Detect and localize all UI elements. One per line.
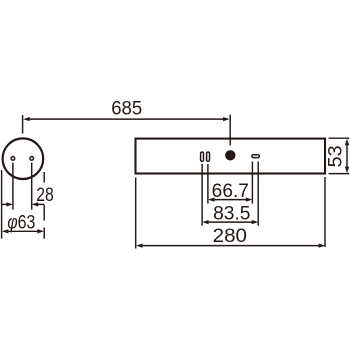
- svg-text:685: 685: [111, 98, 142, 119]
- svg-text:28: 28: [36, 185, 54, 206]
- svg-text:66.7: 66.7: [212, 181, 249, 202]
- svg-text:83.5: 83.5: [213, 204, 250, 225]
- svg-text:53: 53: [325, 145, 346, 167]
- svg-text:φ63: φ63: [7, 212, 35, 233]
- svg-text:280: 280: [213, 226, 247, 247]
